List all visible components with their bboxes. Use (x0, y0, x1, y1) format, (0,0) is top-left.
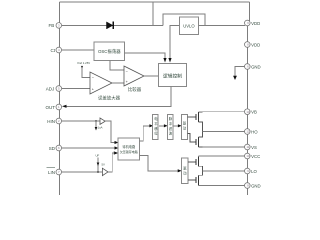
arrow OSC into logic box (163, 58, 166, 63)
arrow into OUT pin (62, 105, 67, 108)
svg-text:VCC: VCC (251, 154, 260, 159)
wire OSC to comparator minus (110, 61, 124, 71)
wire box1 to box2 (159, 125, 165, 127)
wire LIN line (62, 171, 103, 173)
current source on HIN (95, 120, 103, 130)
svg-text:VDD: VDD (251, 21, 260, 26)
wire HIN line (62, 120, 100, 122)
arrow into box1 (149, 124, 153, 127)
wire top edge (60, 1, 250, 3)
wire error amp output (112, 82, 124, 84)
wire LIN buffer to protect box (108, 153, 112, 172)
op-amp comparator (124, 66, 144, 93)
wire VS line (203, 146, 246, 148)
ground internal arrow (233, 67, 245, 81)
node HO pin (245, 129, 259, 135)
op-amp error amplifier (90, 72, 121, 102)
node GND pin bottom (245, 183, 261, 189)
wire protect box bottom output to low driver (140, 155, 179, 171)
svg-text:待机电路: 待机电路 (122, 144, 136, 149)
wire ADJ to error amp plus (62, 88, 90, 90)
node LO pin (245, 168, 258, 174)
wire VCC rail (199, 155, 246, 157)
svg-text:OUT: OUT (46, 105, 56, 110)
wire HIN buffer to protect box (105, 121, 116, 143)
svg-text:UVLO: UVLO (183, 23, 195, 28)
svg-text:Vref 1.25V: Vref 1.25V (77, 61, 90, 65)
svg-text:VDD: VDD (251, 42, 260, 47)
node FB pin (49, 23, 62, 29)
transistor Q2 high side lower (187, 132, 202, 148)
svg-text:脉冲滤波: 脉冲滤波 (169, 116, 173, 136)
wire HO line (203, 131, 246, 133)
svg-text:误差放大器: 误差放大器 (98, 95, 121, 102)
svg-text:FB: FB (49, 23, 55, 28)
pull-up current source on LIN (96, 154, 106, 173)
transistor Q3 low side upper (188, 156, 203, 171)
svg-text:HO: HO (251, 129, 258, 134)
svg-text:驱动: 驱动 (183, 122, 187, 131)
node VCC pin (245, 153, 261, 159)
wire logic to OUT (66, 87, 171, 107)
svg-text:HIN: HIN (47, 119, 55, 124)
arrow into low driver box (178, 169, 182, 172)
wire box2 to box3 (173, 125, 179, 127)
wire LIN stub into box left (112, 152, 114, 154)
wire GND low line (199, 185, 246, 187)
wire LO line (203, 170, 246, 172)
svg-text:SD: SD (49, 146, 56, 151)
wire OSC output to logic (125, 53, 166, 59)
wire left rail (59, 2, 61, 195)
svg-text:Ct: Ct (51, 48, 56, 53)
wire SD line (62, 147, 116, 149)
wire VDD line to pin (199, 24, 245, 26)
svg-text:VB: VB (251, 110, 257, 115)
wire Vref to error amp minus (82, 67, 90, 78)
svg-text:1uA: 1uA (98, 126, 103, 130)
svg-text:LIN: LIN (48, 170, 55, 175)
node HIN pin (47, 118, 61, 124)
wire FB line (62, 24, 163, 26)
node OUT pin (46, 104, 62, 110)
wire VDD hump rail (163, 14, 205, 25)
wire FB to top rail (152, 2, 154, 25)
svg-text:GND: GND (251, 183, 261, 188)
arrow HIN into protect box (115, 141, 119, 144)
wire Ct to OSC (62, 49, 94, 51)
block standby and UVLO latch (118, 138, 140, 160)
svg-text:比较器: 比较器 (128, 86, 142, 93)
node ADJ pin (46, 86, 62, 92)
diode D1 (107, 22, 114, 29)
node VDD pin 2 (245, 42, 261, 48)
block UVLO U2 (179, 17, 198, 34)
node GND pin top (245, 64, 261, 70)
node VS pin (245, 144, 257, 150)
wire UVLO output to logic (170, 26, 179, 59)
arrow into box2 (164, 124, 168, 127)
buffer on HIN (100, 118, 105, 124)
svg-text:5V: 5V (102, 163, 106, 167)
svg-text:GND: GND (251, 64, 261, 69)
wire right rail top drop (249, 2, 251, 21)
block OSC oscillator (94, 42, 125, 61)
block logic control (159, 64, 187, 87)
block high driver box3 (182, 115, 188, 140)
wire protect box top output to level shift chain (140, 126, 151, 141)
node SD pin (49, 145, 62, 151)
transistor Q1 high side upper (187, 112, 202, 132)
svg-text:LO: LO (251, 169, 257, 174)
svg-text:逻辑控制: 逻辑控制 (163, 72, 182, 79)
svg-text:OSC振荡器: OSC振荡器 (98, 48, 121, 55)
arrow SD into protect box (115, 146, 119, 149)
wire comparator output to logic (144, 75, 159, 77)
wire right rail (246, 20, 248, 195)
transistor Q4 low side lower (188, 171, 203, 185)
block low driver (182, 158, 189, 184)
node VDD pin 1 (245, 20, 261, 26)
svg-text:VS: VS (251, 145, 257, 150)
block level shift box1 (152, 115, 158, 140)
node VB pin (245, 109, 257, 115)
arrow LIN into protect box (114, 151, 119, 154)
node Ct pin (51, 47, 62, 53)
node Vref 1.25V (77, 61, 90, 68)
node LIN-bar pin (47, 168, 62, 175)
svg-text:欠压锁存电路: 欠压锁存电路 (120, 149, 138, 154)
arrow into logic box from UVLO (168, 58, 171, 63)
svg-text:电平移位: 电平移位 (154, 116, 158, 136)
arrow into box3 (178, 124, 182, 127)
buffer on LIN (102, 168, 108, 175)
svg-text:UF: UF (96, 154, 100, 158)
svg-text:ADJ: ADJ (46, 86, 55, 91)
block pulse filter box2 (167, 115, 173, 140)
wire VB rail (199, 111, 246, 113)
